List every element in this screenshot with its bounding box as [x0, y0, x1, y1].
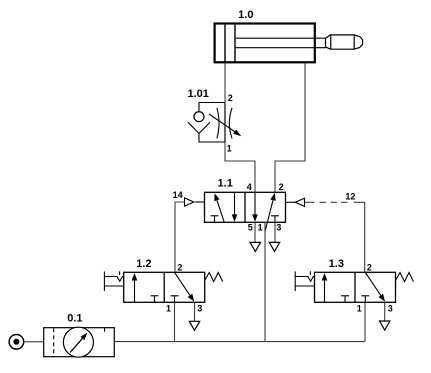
wire cylinder left port down to valve 1.01 port 2: [224, 63, 226, 104]
svg-text:12: 12: [345, 192, 355, 202]
valve 1.3 body (3/2 way): [315, 272, 396, 302]
valve 1.2 right box flow arrow 2 to 3: [175, 273, 195, 302]
valve 1.3 return spring: [396, 273, 414, 282]
svg-text:1.01: 1.01: [188, 88, 209, 100]
svg-text:1: 1: [227, 144, 232, 154]
wire valve 1.1 port 1 down to supply bus: [264, 222, 266, 341]
valve 1.1 right box blocked port 3 T: [271, 216, 279, 222]
svg-text:2: 2: [228, 93, 233, 103]
wire valve 1.2 port 1 down to supply bus: [174, 302, 176, 341]
wire source to service unit 0.1: [24, 341, 44, 343]
svg-text:14: 14: [173, 190, 183, 200]
svg-text:1.3: 1.3: [329, 258, 344, 270]
wire cylinder right port down then left to valve 1.1 port 2: [275, 63, 305, 193]
valve 1.3 left box flow arrow 1 to 2: [322, 273, 328, 302]
svg-text:1.1: 1.1: [218, 178, 233, 190]
valve 1.1 body (5/2 way): [205, 192, 286, 222]
valve 1.1 right box flow arrow 4 to 5: [252, 193, 258, 222]
valve 1.3 right box blocked port 1 T: [361, 296, 369, 302]
svg-text:1: 1: [166, 303, 171, 313]
valve 1.2 left box blocked port T: [151, 296, 159, 302]
valve 1.3 manual pushbutton actuator: [295, 271, 314, 291]
valve 1.1 left pilot 14 triangle: [185, 198, 205, 206]
svg-text:5: 5: [248, 223, 253, 233]
svg-text:1.2: 1.2: [136, 258, 151, 270]
svg-text:1: 1: [357, 303, 362, 313]
exhaust silencer at valve 1.3 port 3: [380, 302, 390, 330]
compressed air source: [9, 335, 24, 350]
valve 1.3 left box blocked port T: [341, 296, 349, 302]
svg-text:4: 4: [247, 182, 252, 192]
svg-text:0.1: 0.1: [67, 313, 82, 325]
svg-text:2: 2: [279, 182, 284, 192]
wire pilot 14 to valve 1.2 port 2: [175, 202, 185, 273]
supply bus wire from service unit to valves: [114, 341, 365, 343]
dashed pilot wire 12 to valve 1.3 port 2: [305, 202, 365, 272]
valve 1.1 right box flow arrow 1 to 2: [265, 193, 276, 233]
exhaust silencer at valve 1.1 port 5: [250, 222, 260, 251]
svg-text:1: 1: [258, 223, 263, 233]
valve 1.1 left box flow arrow 2 to 3: [232, 193, 238, 222]
svg-text:1.0: 1.0: [238, 9, 253, 21]
svg-text:3: 3: [388, 303, 393, 313]
exhaust silencer at valve 1.2 port 3: [189, 302, 199, 330]
service unit 0.1 with gauge: [44, 327, 115, 357]
svg-text:2: 2: [177, 262, 182, 272]
wire valve 1.01 port 1 down then right to valve 1.1 port 4: [225, 142, 255, 193]
svg-text:3: 3: [276, 223, 281, 233]
valve 1.2 body (3/2 way): [124, 272, 205, 302]
valve 1.2 manual pushbutton actuator: [104, 271, 123, 291]
svg-text:3: 3: [197, 303, 202, 313]
valve 1.1 right pilot 12 triangle: [286, 198, 305, 206]
valve 1.2 left box flow arrow 1 to 2: [132, 273, 138, 302]
flow control valve 1.01: [188, 103, 241, 143]
wire valve 1.3 port 1 down to supply bus corner: [364, 302, 366, 341]
valve 1.1 left box blocked port T: [211, 216, 219, 222]
exhaust silencer at valve 1.1 port 3: [269, 222, 279, 251]
svg-text:2: 2: [367, 262, 372, 272]
valve 1.1 left box flow arrow 1 to 4: [214, 193, 224, 223]
valve 1.2 return spring: [205, 273, 223, 282]
valve 1.3 right box flow arrow 2 to 3: [366, 273, 386, 302]
cylinder 1.0: [215, 24, 363, 63]
valve 1.2 right box blocked port 1 T: [171, 296, 179, 302]
